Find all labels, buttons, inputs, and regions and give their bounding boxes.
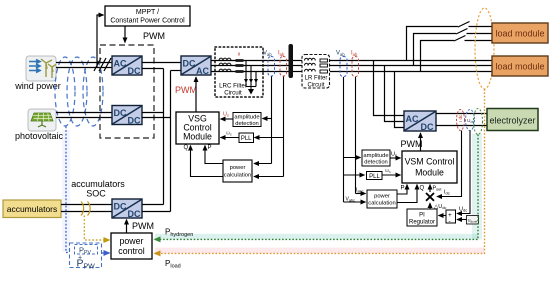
svg-text:PWM: PWM (401, 139, 423, 149)
wire U_dc to summation (457, 131, 470, 214)
wire PLL to VSG (omega) (221, 137, 240, 139)
svg-text:DC: DC (114, 108, 127, 118)
P_pv signal halo (62, 130, 70, 252)
PWM arrow power control to battery DC/DC (126, 220, 128, 234)
electrolyzer tap c (395, 72, 405, 128)
converter DC/AC U3 (grid side) (181, 56, 211, 76)
svg-text:MPPT /: MPPT / (136, 9, 159, 16)
power control box (111, 233, 152, 259)
LRC star point tie (246, 86, 256, 88)
summation block (446, 210, 456, 225)
svg-text:power: power (120, 236, 144, 246)
PWM arrow VSG to DC/AC (195, 77, 197, 112)
wire V to amplitude detection (263, 118, 272, 120)
load measurement ellipse (orange dotted) (475, 8, 494, 89)
coupling ellipse 2 (blue dashed) (67, 57, 87, 126)
wire amplitude detection to VSM (U_s) (390, 157, 401, 159)
svg-text:Module: Module (183, 132, 212, 142)
wire VSM power calculation Q to VSM (397, 185, 417, 203)
wire bus B to DC/AC in- (171, 70, 182, 72)
three-phase wire c (LR filter to load module 2) (330, 71, 492, 73)
svg-text:PWM: PWM (132, 221, 154, 231)
LR resistor R1 (320, 59, 328, 62)
wire PV out+ to bus A (142, 112, 164, 114)
svg-text:I dc: I dc (458, 114, 463, 122)
LRC inductor L2 (219, 63, 231, 65)
wire AC/DC out+ to DC/AC (142, 62, 181, 64)
LR inductor L2 (305, 63, 316, 65)
VSG measurement line V (from V_ab probe) (271, 77, 273, 164)
VSM power calculation box (367, 190, 397, 208)
wire V to VSM PLL (344, 174, 365, 176)
svg-text:Vab: Vab (336, 51, 345, 58)
svg-text:Idc: Idc (444, 190, 450, 196)
wire wind - (56, 67, 112, 69)
svg-text:Constant Power Control: Constant Power Control (110, 18, 185, 25)
SOC signal line (olive dotted) (84, 216, 109, 241)
svg-text:detection: detection (235, 121, 259, 127)
LRC resistor R1 (236, 59, 244, 62)
converter DC/DC U2 (photovoltaic) (112, 106, 142, 126)
wire V to VSM amplitude detection (344, 157, 361, 159)
svg-text:Vab: Vab (263, 51, 272, 58)
VSM measurement line V (from V_ab probe after LR) (343, 77, 345, 202)
wire I_dc to multiplier (437, 131, 462, 197)
VSM measurement line I (from I_ab probe after LR) (355, 77, 357, 194)
electrolyzer tap b (385, 66, 405, 122)
svg-text:DC: DC (128, 116, 141, 126)
LRC phase marker (red) (238, 53, 240, 56)
svg-text:DC: DC (128, 209, 141, 219)
wire P_PV+P_PW to power control (blue arrow) (102, 252, 110, 254)
wire accumulators - (61, 211, 112, 213)
wire VSM power calculation P to VSM (397, 185, 407, 195)
AC bus bar (289, 44, 294, 78)
svg-text:LR Filter: LR Filter (305, 76, 328, 82)
svg-text:DC: DC (183, 59, 196, 69)
PI regulator box (407, 209, 437, 226)
svg-text:DC: DC (128, 66, 141, 76)
LRC inductor L1 (219, 58, 231, 60)
three-phase wire a (DC/AC to bus) (211, 60, 289, 62)
svg-text:electrolyzer: electrolyzer (489, 116, 535, 126)
wire wind + (56, 62, 112, 64)
wire PI regulator to multiplier (429, 203, 431, 209)
svg-text:Q: Q (184, 145, 189, 151)
wire switch b to load 1 (467, 33, 493, 35)
svg-text:AC: AC (114, 59, 127, 69)
wire U_dc reference to summation (457, 219, 467, 221)
wire power calculation Q to VSG (191, 146, 224, 177)
wire switch c to load 1 (465, 40, 493, 42)
svg-text:calculation: calculation (368, 201, 395, 207)
svg-text:PWM: PWM (175, 85, 197, 95)
svg-text:control: control (118, 246, 144, 256)
U_dc reference box (467, 216, 479, 225)
P_PV + P_PW summation dashed box (70, 243, 102, 270)
wire AC/DC out- to bus A (142, 68, 164, 70)
wire U4 to electrolyzer - (436, 125, 487, 127)
three-phase wire a (bus to LR filter) (293, 60, 302, 62)
load 1 riser b (414, 34, 457, 66)
svg-text:detection: detection (364, 160, 388, 166)
svg-text:calculation: calculation (224, 173, 251, 179)
wire I to power calculation (254, 176, 284, 178)
breaker switch c (454, 36, 466, 42)
LRC capacitor drop c (255, 72, 257, 87)
svg-text:load module: load module (495, 29, 544, 39)
VSG amplitude detection box (233, 113, 261, 127)
LRC resistor R3 (236, 70, 244, 73)
three-phase wire c (bus to LR filter) (293, 71, 302, 73)
load 1 riser a (407, 27, 459, 61)
svg-text:accumulators: accumulators (71, 179, 125, 189)
svg-text:P: P (208, 145, 212, 151)
VSG power calculation box (223, 160, 252, 182)
svg-text:Iab: Iab (278, 51, 285, 58)
svg-text:photovoltaic: photovoltaic (15, 131, 64, 141)
LRC filter circuit box (215, 47, 263, 97)
feedback wire to MPPT (97, 15, 104, 68)
svg-text:power: power (374, 194, 390, 200)
wire PV out- to bus B (142, 117, 171, 119)
wind power source icon (26, 56, 56, 81)
voltage probe V_ab (after LR filter) (336, 51, 347, 77)
svg-text:PLL: PLL (241, 136, 252, 142)
svg-text:amplitude: amplitude (363, 153, 388, 159)
LRC capacitor drop a (245, 61, 247, 87)
wire V to power calculation (254, 163, 272, 165)
wire I to PLL (255, 137, 284, 139)
three-phase wire c (DC/AC to bus) (211, 71, 289, 73)
PWM arrow VSM to AC/DC U4 (420, 133, 422, 151)
three-phase wire b (DC/AC to bus) (211, 65, 289, 67)
converter AC/DC U1 (wind) (112, 56, 142, 76)
three-phase wire b (LR filter to load module 2) (330, 65, 492, 67)
multiplier symbol (426, 193, 434, 201)
VSM amplitude detection box (362, 150, 390, 166)
svg-text:AC: AC (196, 66, 209, 76)
P_pv signal line (blue dotted) (66, 127, 69, 253)
svg-text:DC: DC (421, 122, 434, 132)
svg-text:Iab: Iab (351, 51, 358, 58)
SOC measurement marks (81, 202, 90, 216)
svg-text:PLL: PLL (369, 174, 380, 180)
P_hydrogen signal line (green dotted) (155, 135, 479, 240)
converter DC/DC U5 (battery) (112, 199, 142, 219)
svg-text:DC: DC (114, 202, 127, 212)
electrolyzer box (487, 109, 538, 131)
three-phase wire b (bus to LR filter) (293, 65, 302, 67)
current probe I_ab (after LR filter) (351, 51, 359, 77)
breaker switch a (458, 22, 470, 28)
wire accumulators + (61, 204, 112, 206)
svg-text:SOC: SOC (86, 189, 106, 199)
current probe I_dc (red dashed ellipse) (457, 110, 465, 131)
VSG control module box (176, 112, 219, 144)
wire switch a to load 1 (469, 26, 493, 28)
svg-text:Q: Q (420, 186, 425, 192)
wire multiplier to VSM (P_set) (429, 185, 431, 193)
LR resistor R2 (320, 64, 328, 67)
svg-text:wind power: wind power (14, 81, 61, 91)
VSM control module box (402, 151, 457, 183)
svg-text:P: P (401, 186, 405, 192)
wire I to VSM power calculation (356, 193, 366, 195)
converter AC/DC U4 (electrolyzer) (404, 111, 436, 132)
three-phase wire a (LR filter to load module 2) (330, 60, 492, 62)
svg-text:PWM: PWM (143, 31, 165, 41)
electrolyzer tap a (374, 61, 405, 116)
wire U4 to electrolyzer + (436, 113, 487, 115)
wire amplitude detection to VSG (U_s) (221, 118, 234, 120)
DC bus B vertical (170, 71, 172, 212)
converter group dashed box (100, 45, 154, 138)
svg-text:accumulators: accumulators (7, 204, 58, 214)
accumulators SOC label (71, 179, 125, 199)
PWM arrow from MPPT to converter group (124, 26, 126, 43)
svg-text:Us: Us (391, 152, 397, 158)
LR inductor L3 (305, 69, 316, 71)
DC bus A vertical (163, 69, 165, 205)
svg-text:Circuit: Circuit (224, 90, 242, 97)
accumulators box (3, 200, 61, 218)
LRC capacitor drop b (250, 66, 252, 87)
hydrogen power measurement ellipse (green dotted) (474, 109, 483, 135)
LRC resistor R2 (236, 64, 244, 67)
VSG PLL box (239, 133, 254, 143)
svg-text:Udc: Udc (459, 207, 467, 213)
svg-text:load module: load module (495, 62, 544, 72)
wire battery DC/DC out+ to bus A (142, 204, 164, 206)
svg-text:power: power (230, 165, 246, 171)
svg-text:Pset: Pset (433, 186, 443, 192)
load module 1 box (492, 23, 548, 43)
current probe I_ab (left of bus) (278, 51, 287, 77)
breaker switch b (456, 29, 468, 35)
MPPT / Constant Power Control box (105, 6, 190, 26)
coupling ellipse 3 (blue dashed) (83, 57, 103, 126)
wire photovoltaic - (56, 117, 112, 119)
LR resistor R3 (320, 70, 328, 73)
P_load signal line (orange dotted) (155, 89, 485, 253)
wire power calculation P to VSG (205, 146, 223, 164)
svg-text:LRC Filter: LRC Filter (219, 83, 247, 90)
LRC inductor L3 (219, 69, 231, 71)
VSG measurement line I (from I_ab probe) (283, 77, 285, 177)
LR filter circuit box (302, 55, 330, 89)
svg-text:amplitude: amplitude (234, 115, 259, 121)
wire V to VSM power calculation (344, 201, 366, 203)
wire summation to PI regulator (439, 215, 447, 217)
svg-text:PI: PI (419, 213, 425, 219)
coupling ellipse 1 (blue dashed) (55, 57, 75, 126)
VSM PLL box (367, 172, 383, 181)
P_hydrogen signal halo (155, 134, 482, 240)
wire photovoltaic + (56, 112, 112, 114)
svg-text:Module: Module (415, 168, 444, 178)
svg-text:-: - (449, 218, 451, 225)
LRC capacitor arrowheads (244, 79, 258, 83)
wire break slashes (94, 58, 111, 71)
wire PLL to VSM (omega) (382, 174, 401, 176)
voltage probe V_ab (left of bus) (263, 51, 275, 77)
svg-text:VSM Control: VSM Control (405, 157, 455, 167)
LR inductor L1 (305, 58, 316, 60)
LRC ground arrow (249, 87, 253, 94)
load module 2 box (492, 56, 548, 76)
svg-text:Us: Us (223, 112, 229, 118)
photovoltaic source icon (28, 109, 56, 131)
wire battery DC/DC out- to bus B (142, 211, 171, 213)
svg-text:Regulator: Regulator (409, 220, 435, 226)
svg-text:AC: AC (406, 114, 419, 124)
svg-text:Circuit: Circuit (307, 83, 324, 89)
load 1 riser c (421, 41, 455, 72)
voltage probe U_dc (blue dashed ellipse) (466, 110, 475, 131)
P_load signal halo (155, 248, 484, 254)
